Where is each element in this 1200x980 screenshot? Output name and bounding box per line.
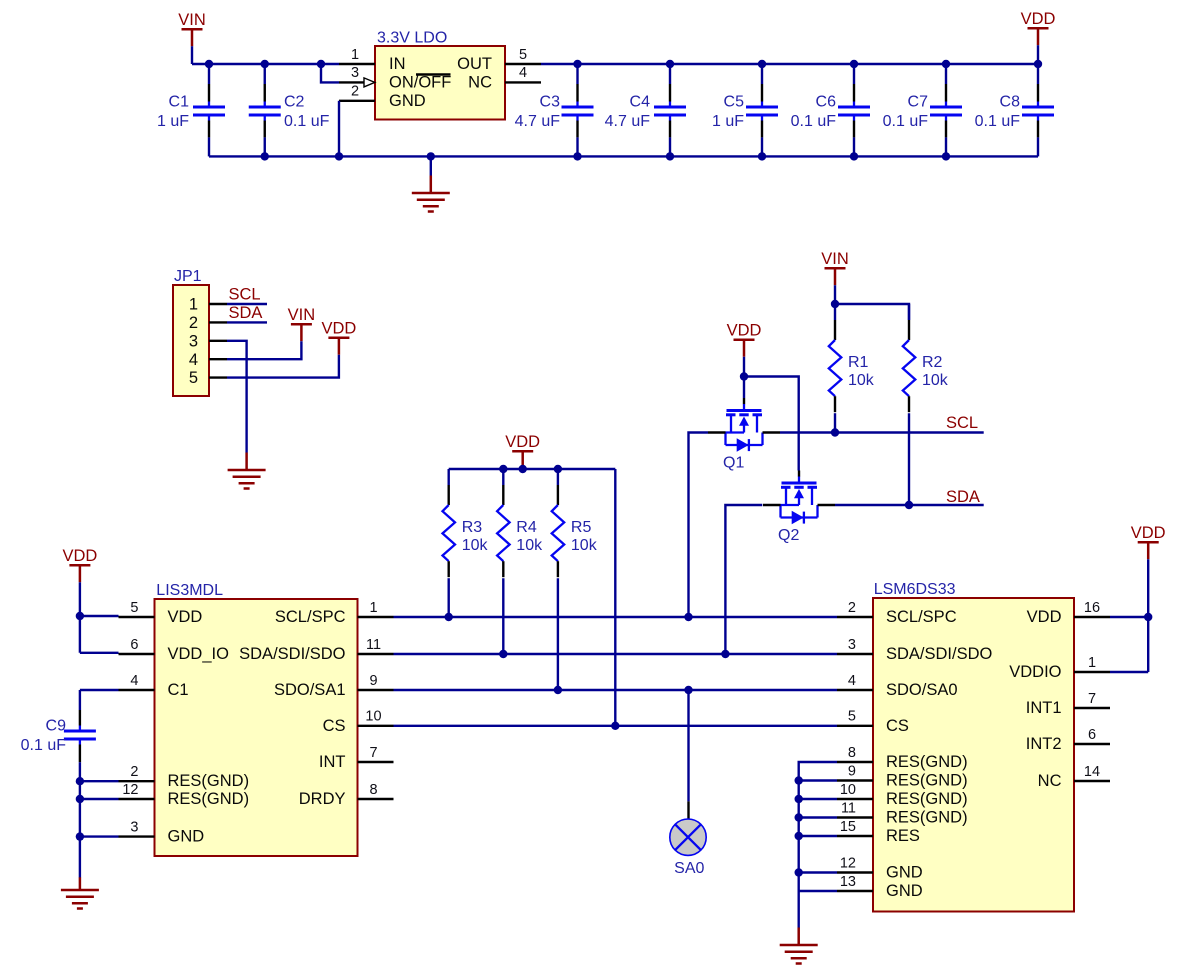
IC U3 LSM6DS33	[873, 581, 1074, 912]
svg-text:10: 10	[365, 709, 381, 725]
svg-text:6: 6	[1088, 727, 1096, 743]
svg-text:RES(GND): RES(GND)	[886, 772, 968, 790]
svg-text:VDD: VDD	[1131, 524, 1166, 542]
svg-text:SDA: SDA	[229, 304, 263, 322]
capacitor C1 1 uF	[157, 64, 225, 156]
svg-text:8: 8	[848, 745, 856, 761]
capacitor C5 1 uF	[712, 64, 778, 156]
svg-text:10k: 10k	[516, 537, 543, 554]
svg-text:SCL: SCL	[946, 414, 978, 432]
wire SCL/SPC net	[394, 616, 838, 618]
svg-text:4: 4	[189, 351, 198, 369]
IC U2 LIS3MDL	[155, 582, 358, 856]
svg-text:SDA: SDA	[946, 488, 980, 506]
LSM6DS33 pin 8 stub	[837, 745, 873, 762]
svg-text:INT2: INT2	[1026, 735, 1062, 753]
wire ground bus stem	[430, 156, 432, 175]
svg-text:C1: C1	[169, 94, 190, 111]
svg-text:C7: C7	[908, 94, 929, 111]
svg-text:10k: 10k	[922, 372, 949, 389]
svg-text:3: 3	[189, 332, 198, 350]
svg-text:C6: C6	[816, 94, 837, 111]
svg-text:RES: RES	[886, 827, 920, 845]
junction dots top bus	[205, 60, 1042, 68]
svg-text:C9: C9	[46, 718, 67, 735]
wire LSM6DS33 RES/GND bus	[799, 762, 837, 891]
net label SCL (JP1)	[227, 286, 267, 305]
svg-text:1: 1	[351, 47, 359, 63]
LDO pin 5 OUT stub	[505, 47, 541, 64]
svg-text:5: 5	[848, 709, 856, 725]
svg-text:RES(GND): RES(GND)	[886, 790, 968, 808]
wire SDO/SA1-SDO/SA0 net	[394, 689, 838, 691]
svg-text:5: 5	[519, 47, 527, 63]
junction dot VDD gate node	[740, 372, 748, 380]
LIS3MDL pin 2 stub	[119, 764, 155, 781]
LDO pin 3 ON/OFF stub with input arrow	[339, 65, 375, 87]
wire LIS3MDL ground bus	[80, 781, 119, 877]
junction dots RES/GND bus	[795, 776, 803, 876]
ground symbol (LIS3MDL)	[61, 877, 99, 908]
net label SDA (JP1)	[227, 304, 267, 322]
svg-text:0.1 uF: 0.1 uF	[21, 737, 67, 754]
svg-text:VDD: VDD	[62, 547, 97, 565]
svg-text:2: 2	[351, 84, 359, 100]
LSM6DS33 pin 2 stub	[837, 600, 873, 617]
wire SDA net (Q2 source down to bus)	[725, 505, 762, 654]
svg-text:2: 2	[848, 600, 856, 616]
wire SDA/SDI/SDO net	[394, 653, 838, 655]
svg-text:2: 2	[189, 314, 198, 332]
svg-text:VDDIO: VDDIO	[1009, 663, 1061, 681]
junction dot SDA/R2	[905, 501, 913, 509]
transistor Q2	[763, 471, 835, 545]
wire VIN top bus	[192, 63, 339, 65]
JP1 pin 3 stub	[209, 340, 227, 342]
svg-text:13: 13	[840, 874, 856, 890]
wire VDD to LIS3MDL pins 5 and 6	[80, 582, 119, 653]
svg-text:14: 14	[1084, 764, 1100, 780]
svg-text:0.1 uF: 0.1 uF	[975, 113, 1021, 130]
LIS3MDL pin 12 stub	[119, 782, 155, 799]
junction dots SDO net	[554, 686, 693, 694]
svg-text:C4: C4	[630, 94, 651, 111]
LSM6DS33 pin 10 stub	[837, 782, 873, 799]
svg-text:RES(GND): RES(GND)	[886, 753, 968, 771]
junction dots SCL/SPC net	[445, 613, 693, 621]
svg-text:15: 15	[840, 819, 856, 835]
JP1 pin 4 stub	[209, 358, 227, 360]
transistor Q1	[708, 398, 780, 472]
svg-text:SCL: SCL	[229, 286, 261, 304]
capacitor C9 0.1 uF	[21, 690, 96, 781]
svg-text:DRDY: DRDY	[299, 790, 346, 808]
LIS3MDL pin 9 stub	[358, 673, 394, 690]
svg-text:R3: R3	[462, 519, 483, 536]
supply VDD (LIS3MDL)	[62, 547, 97, 582]
resistor R1 10k	[829, 304, 875, 433]
ground symbol (LSM6DS33)	[780, 928, 818, 964]
LSM6DS33 pin 6 stub	[1074, 727, 1110, 744]
wire SCL net (Q1 source down to bus)	[689, 433, 709, 618]
JP1 pin 5 stub	[209, 376, 227, 378]
svg-text:7: 7	[369, 745, 377, 761]
supply VDD (pull-ups)	[505, 433, 540, 468]
wire VDD to LSM6DS33 pins 16 and 1	[1110, 559, 1148, 672]
LIS3MDL pin 8 stub	[358, 782, 394, 799]
svg-text:3: 3	[351, 65, 359, 81]
svg-text:C8: C8	[1000, 94, 1021, 111]
wire VIN node to R1/R2	[835, 285, 909, 320]
capacitor C6 0.1 uF	[791, 64, 870, 156]
LSM6DS33 pin 1 stub	[1074, 655, 1110, 672]
resistor R4 10k	[497, 469, 543, 654]
supply VDD (LSM6DS33)	[1131, 524, 1166, 559]
svg-text:VDD: VDD	[321, 320, 356, 338]
svg-text:1: 1	[189, 296, 198, 314]
svg-text:R1: R1	[848, 354, 869, 371]
svg-text:SDA/SDI/SDO: SDA/SDI/SDO	[886, 645, 993, 663]
LIS3MDL pin 10 stub	[358, 709, 394, 726]
svg-text:7: 7	[1088, 691, 1096, 707]
svg-text:SCL/SPC: SCL/SPC	[275, 608, 346, 626]
svg-text:10k: 10k	[462, 537, 489, 554]
wire VDD to CS net	[614, 469, 616, 726]
svg-text:GND: GND	[886, 882, 923, 900]
svg-text:R4: R4	[516, 519, 537, 536]
LDO pin 4 NC stub	[505, 65, 541, 82]
resistor R2 10k	[903, 304, 949, 505]
svg-text:IN: IN	[389, 55, 406, 73]
svg-text:1 uF: 1 uF	[712, 113, 744, 130]
svg-text:0.1 uF: 0.1 uF	[284, 113, 330, 130]
svg-text:SDO/SA1: SDO/SA1	[274, 681, 346, 699]
LSM6DS33 pin 5 stub	[837, 709, 873, 726]
capacitor C3 4.7 uF	[515, 64, 594, 156]
svg-text:R5: R5	[571, 519, 592, 536]
svg-text:3: 3	[848, 637, 856, 653]
wire VDD pull-up bus	[449, 467, 616, 470]
svg-text:10k: 10k	[571, 537, 598, 554]
resistor R5 10k	[552, 469, 598, 690]
LSM6DS33 pin 14 stub	[1074, 764, 1110, 781]
svg-text:OUT: OUT	[457, 55, 492, 73]
svg-text:4.7 uF: 4.7 uF	[515, 113, 561, 130]
svg-text:JP1: JP1	[174, 268, 202, 285]
svg-text:Q2: Q2	[778, 527, 799, 544]
svg-text:C5: C5	[724, 94, 745, 111]
svg-text:RES(GND): RES(GND)	[168, 790, 250, 808]
svg-text:VIN: VIN	[288, 306, 316, 324]
svg-text:LSM6DS33: LSM6DS33	[874, 581, 956, 598]
LSM6DS33 pin 12 stub	[837, 855, 873, 872]
svg-text:0.1 uF: 0.1 uF	[883, 113, 929, 130]
svg-text:8: 8	[369, 782, 377, 798]
svg-text:4: 4	[130, 673, 138, 689]
svg-text:VDD_IO: VDD_IO	[168, 645, 230, 663]
wire RES/GND bus to ground	[798, 891, 800, 929]
capacitor C4 4.7 uF	[605, 64, 686, 156]
svg-text:1 uF: 1 uF	[157, 113, 189, 130]
svg-text:SA0: SA0	[674, 860, 704, 877]
LIS3MDL pin 7 stub	[358, 745, 394, 762]
JP1 pin 1 stub	[209, 303, 227, 305]
junction dot VIN node	[831, 300, 839, 308]
wire JP1 pin 5 to VDD	[227, 355, 339, 378]
ground symbol (JP1)	[228, 453, 266, 489]
svg-text:GND: GND	[389, 92, 426, 110]
LIS3MDL pin 1 stub	[358, 600, 394, 617]
svg-text:CS: CS	[323, 717, 346, 735]
wire SCL net (Q1 drain to label)	[780, 431, 984, 433]
svg-text:VDD: VDD	[168, 608, 203, 626]
wire VDD to Q1/Q2 gates	[744, 357, 799, 471]
svg-text:4: 4	[519, 65, 527, 81]
wire JP1 pin 3 to ground	[227, 341, 247, 453]
resistor R3 10k	[443, 469, 489, 617]
junction dot SCL/R1	[831, 428, 839, 436]
svg-text:9: 9	[369, 673, 377, 689]
junction dots ground bus	[261, 152, 951, 160]
wire VIN stem to bus	[191, 46, 193, 64]
JP1 pin 2 stub	[209, 321, 227, 323]
junction dots VDD pull-up bus	[499, 465, 562, 473]
svg-text:LIS3MDL: LIS3MDL	[156, 582, 223, 599]
svg-text:12: 12	[840, 855, 856, 871]
wire LDO GND pin 2 to ground bus	[338, 101, 340, 157]
svg-text:C2: C2	[284, 94, 305, 111]
svg-text:RES(GND): RES(GND)	[886, 809, 968, 827]
LDO pin 2 GND stub	[339, 84, 375, 101]
svg-text:1: 1	[1088, 655, 1096, 671]
svg-text:0.1 uF: 0.1 uF	[791, 113, 837, 130]
wire ground bus (bottom of power section)	[209, 155, 1038, 157]
svg-text:CS: CS	[886, 717, 909, 735]
svg-text:VDD: VDD	[1021, 10, 1056, 28]
LIS3MDL pin 6 stub	[119, 637, 155, 654]
LDO pin 1 IN stub	[339, 47, 375, 64]
svg-text:RES(GND): RES(GND)	[168, 772, 250, 790]
svg-text:4.7 uF: 4.7 uF	[605, 113, 651, 130]
svg-text:GND: GND	[168, 828, 205, 846]
supply VDD (top right)	[1021, 10, 1056, 45]
supply VDD (JP1)	[321, 320, 356, 355]
svg-text:SDA/SDI/SDO: SDA/SDI/SDO	[239, 645, 346, 663]
supply VIN (level shifter)	[821, 250, 849, 285]
svg-text:11: 11	[366, 637, 381, 653]
LIS3MDL pin 4 stub	[119, 673, 155, 690]
svg-text:SCL/SPC: SCL/SPC	[886, 608, 957, 626]
junction dot VDD/pin16	[1144, 613, 1152, 621]
svg-text:9: 9	[848, 763, 856, 779]
svg-text:VDD: VDD	[505, 433, 540, 451]
svg-text:C1: C1	[168, 681, 189, 699]
LSM6DS33 pin 11 stub	[837, 800, 873, 817]
LSM6DS33 pin 7 stub	[1074, 691, 1110, 708]
svg-text:VDD: VDD	[1027, 608, 1062, 626]
wire SDA net (Q2 drain to label)	[835, 504, 984, 506]
junction dot VDD/pin5	[76, 612, 84, 620]
supply VIN (input, top left)	[178, 11, 206, 46]
LSM6DS33 pin 15 stub	[837, 819, 873, 836]
wire 3.3V output bus	[541, 63, 1038, 65]
svg-text:GND: GND	[886, 864, 923, 882]
wire VIN branch to LDO pin 3	[321, 64, 339, 82]
LSM6DS33 pin 13 stub	[837, 874, 873, 891]
svg-text:NC: NC	[1038, 772, 1062, 790]
svg-text:5: 5	[130, 600, 138, 616]
wire SA0 branch	[687, 690, 689, 819]
capacitor C8 0.1 uF	[975, 64, 1054, 156]
ground symbol (power section)	[412, 176, 450, 212]
svg-text:1: 1	[369, 600, 377, 616]
svg-text:VIN: VIN	[178, 11, 206, 29]
svg-text:C3: C3	[540, 94, 561, 111]
wire LIS3MDL pin 4 (C1) to C9	[80, 689, 119, 691]
svg-text:10: 10	[840, 782, 856, 798]
svg-text:5: 5	[189, 369, 198, 387]
svg-text:INT: INT	[319, 753, 346, 771]
wire CS net	[394, 725, 838, 727]
LIS3MDL pin 3 stub	[119, 819, 155, 836]
svg-text:Q1: Q1	[723, 455, 744, 472]
supply VIN (JP1)	[288, 306, 316, 341]
wire JP1 pin 4 to VIN	[227, 341, 301, 359]
svg-text:11: 11	[841, 800, 856, 816]
svg-text:R2: R2	[922, 354, 943, 371]
svg-text:10k: 10k	[848, 372, 875, 389]
junction dots LIS3MDL ground bus	[76, 777, 84, 841]
svg-text:4: 4	[848, 673, 856, 689]
LIS3MDL pin 5 stub	[119, 600, 155, 617]
svg-text:INT1: INT1	[1026, 699, 1062, 717]
LSM6DS33 pin 4 stub	[837, 673, 873, 690]
supply VDD (level shifter)	[727, 322, 762, 357]
junction dot CS net	[611, 722, 619, 730]
svg-text:6: 6	[130, 637, 138, 653]
svg-text:3: 3	[130, 819, 138, 835]
svg-text:NC: NC	[468, 74, 492, 92]
regulator U1 3.3V LDO	[375, 30, 505, 120]
svg-text:VIN: VIN	[821, 250, 849, 268]
test point SA0	[670, 819, 706, 877]
svg-text:3.3V LDO: 3.3V LDO	[377, 30, 447, 47]
wire VDD stem top right	[1037, 45, 1039, 64]
LSM6DS33 pin 9 stub	[837, 763, 873, 780]
svg-text:ON/OFF: ON/OFF	[389, 74, 451, 92]
LSM6DS33 pin 16 stub	[1074, 600, 1110, 617]
svg-text:2: 2	[130, 764, 138, 780]
junction dots SDA/SDI/SDO net	[499, 650, 730, 658]
svg-text:VDD: VDD	[727, 322, 762, 340]
capacitor C2 0.1 uF	[249, 64, 330, 156]
connector JP1	[173, 268, 209, 396]
LIS3MDL pin 11 stub	[358, 637, 394, 654]
capacitor C7 0.1 uF	[883, 64, 962, 156]
LSM6DS33 pin 3 stub	[837, 637, 873, 654]
svg-text:12: 12	[122, 782, 138, 798]
svg-text:SDO/SA0: SDO/SA0	[886, 681, 958, 699]
svg-text:16: 16	[1084, 600, 1100, 616]
